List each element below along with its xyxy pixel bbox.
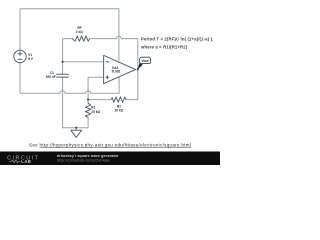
svg-text:See http://hyperphysics.phy-as: See http://hyperphysics.phy-astr.gsu.edu… (29, 142, 191, 147)
wire: C1 bottom plate down to ground rail (62, 77, 64, 128)
node Vout flag pointer (137, 63, 143, 70)
junction: ground rail dot (75, 127, 77, 129)
op-amp non-inverting input marker (106, 76, 109, 79)
op-amp inverting input marker (106, 61, 109, 63)
resistor R1 (85, 103, 90, 117)
svg-text:100 nF: 100 nF (46, 75, 56, 79)
wire: bottom ground rail (63, 127, 89, 129)
svg-text:Vout: Vout (142, 59, 150, 63)
wire: non-inverting input of op-amp and node vertical down to R1 (88, 77, 104, 103)
wire: ground stub (75, 128, 77, 131)
node Vout flag box (140, 57, 151, 63)
wire: R2 left terminal to non-inverting node (88, 99, 111, 101)
svg-text:2 kΩ: 2 kΩ (76, 30, 83, 34)
svg-text:where a = R1/(R1+R2): where a = R1/(R1+R2) (140, 44, 188, 49)
svg-text:LAB: LAB (21, 159, 31, 164)
wire: inverting node from C1 top up and right to RF left terminal (63, 39, 73, 75)
annotation: hyperphysics reference link (29, 142, 191, 147)
footer circuit title text (57, 154, 119, 162)
ground (71, 130, 82, 137)
wire: output node down to R2 right terminal (126, 69, 138, 99)
op-amp U1 (OA1 TL081) (104, 55, 136, 83)
wire: V1 positive terminal up, top rail, down to op-amp V+ pin (20, 9, 119, 61)
junction: inverting node dot (61, 61, 63, 63)
annotation: period formula (140, 37, 213, 50)
svg-text:20 kΩ: 20 kΩ (91, 110, 100, 114)
wire: inverting input of op-amp (63, 61, 104, 63)
wire: V1 negative terminal down, ground return rail to op-amp V- pin (hops over C1 and R1 node wires) (20, 63, 119, 94)
svg-text:TL081: TL081 (111, 70, 120, 74)
resistor RF (72, 36, 89, 41)
footer bar (0, 152, 220, 166)
voltage source V1 (14, 50, 26, 62)
svg-text:Period T = 2(RF)C ln( (1+a)/(1: Period T = 2(RF)C ln( (1+a)/(1-a) ), (141, 37, 213, 42)
junction: output node dot (137, 68, 139, 70)
wire: R1 bottom to ground rail (87, 117, 89, 127)
svg-text:20 kΩ: 20 kΩ (115, 109, 124, 113)
svg-text:http://circuitlab.com/c2vh4aa: http://circuitlab.com/c2vh4aa (57, 158, 110, 162)
logo CircuitLab (7, 155, 39, 164)
resistor R2 (111, 97, 126, 102)
wire: RF right terminal to output node (hops over V+ supply wire) (90, 36, 138, 69)
capacitor C1 (57, 74, 69, 77)
junction: non-inverting node dot (87, 99, 89, 101)
